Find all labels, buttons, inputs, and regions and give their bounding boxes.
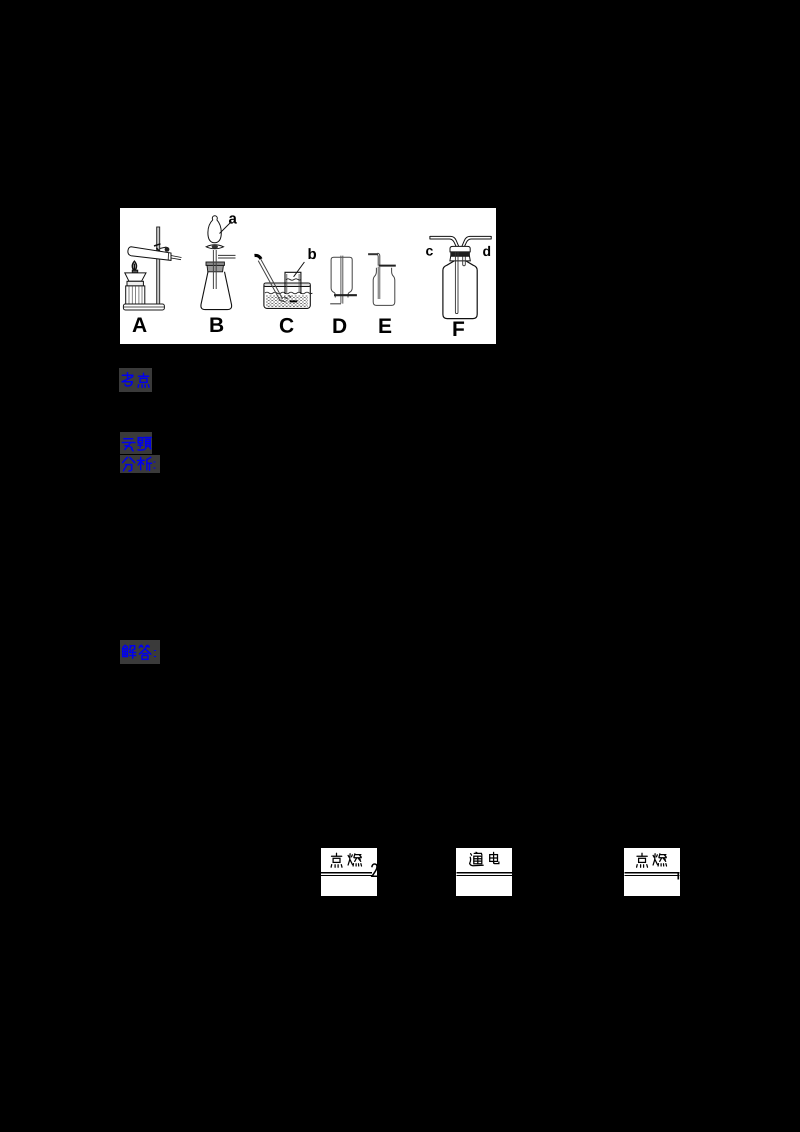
apparatus C: inverted collecting bottle [285,272,301,294]
svg-text:b: b [308,246,317,263]
svg-text:B: B [209,314,224,337]
apparatus B: thistle funnel bulb [206,216,223,249]
keyword 专题 [120,432,152,455]
keyword 解答: [120,640,160,664]
apparatus B: funnel stem [213,250,216,289]
apparatus A: clamp [154,244,169,253]
apparatus D: elbow at bottom [330,303,341,305]
svg-text:C: C [279,315,294,338]
svg-text:A: A [132,314,147,337]
apparatus F: stopper [450,246,470,261]
apparatus E: mouth bar [379,265,396,267]
apparatus F: short inner tube [463,257,466,266]
apparatus D: inverted bottle [331,257,352,297]
keyword 考点 (blue on dark highlight) [119,368,152,392]
apparatus F: left tube c [430,236,459,247]
apparatus C: diagonal delivery tube [258,259,282,300]
apparatus E: inner tube [378,267,380,299]
svg-text:c: c [426,243,434,259]
equation condition box 1: 点燃 over double line, subscript 2 [321,848,378,896]
apparatus C: water surface [265,292,312,294]
apparatus A: alcohol lamp [125,261,146,304]
apparatus E: bottle [373,268,395,306]
equation condition box 3: 点燃 over double line [624,848,680,897]
apparatus C: delivery tube elbow [255,255,262,259]
svg-text:D: D [332,315,347,338]
apparatus F: long inner tube [455,252,458,314]
apparatus B: delivery tube [218,255,236,258]
apparatus C: water texture [266,296,308,306]
apparatus F: right tube d [462,236,491,247]
equation condition box 2: 通电 over double line [456,848,513,897]
svg-text:d: d [483,243,492,259]
apparatus D: thick mouth bar [334,294,357,296]
apparatus E: bent delivery tube [368,253,378,255]
glyph definitions (CJK strokes drawn as paths) [0,0,1,1]
svg-text:a: a [229,211,238,228]
apparatus D: inner tube [341,256,343,304]
apparatus B: stopper [206,262,224,272]
apparatus C: dark bar under bottle [290,300,298,302]
apparatus C: trough [264,283,310,308]
keyword 分析: [120,455,160,473]
apparatus B: conical flask [201,272,232,310]
svg-text:F: F [452,318,465,341]
apparatus A: iron stand [123,227,164,310]
svg-text:E: E [378,315,392,338]
apparatus A: test tube [128,247,182,261]
apparatus figure image (white block) [120,208,496,344]
apparatus F: bottle body [443,261,477,319]
apparatus C: tube tip and bubbles [281,295,292,302]
